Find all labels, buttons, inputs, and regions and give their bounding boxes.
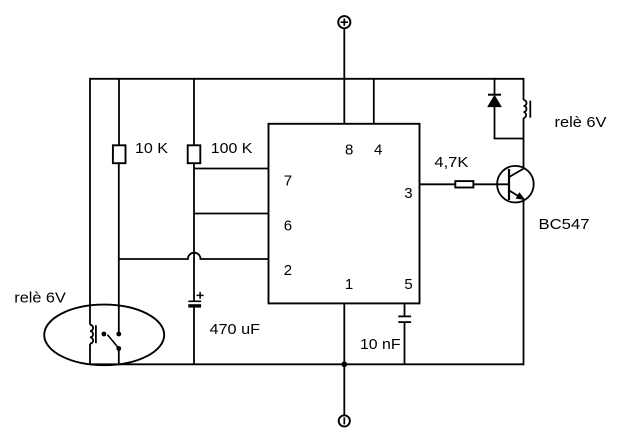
wire pin 1 to ground rail bbox=[343, 303, 345, 364]
wire left rail lower bbox=[89, 344, 91, 365]
diode D1 cathode bar bbox=[488, 94, 501, 96]
svg-text:relè 6V: relè 6V bbox=[14, 290, 65, 307]
wire top supply rail bbox=[90, 78, 524, 80]
svg-text:10 K: 10 K bbox=[135, 140, 168, 157]
svg-text:5: 5 bbox=[404, 276, 412, 293]
wire 10K branch upper bbox=[118, 79, 120, 146]
wire left rail upper bbox=[89, 78, 91, 325]
relay contact dot B bbox=[116, 332, 121, 337]
wire resistor R3 to transistor base bbox=[473, 183, 509, 185]
transistor Q1 base bar bbox=[508, 169, 510, 200]
wire pin 7 bbox=[194, 168, 269, 170]
wire right rail middle bbox=[523, 118, 525, 169]
svg-text:BC547: BC547 bbox=[539, 216, 590, 233]
resistor 4,7K bbox=[455, 181, 473, 187]
svg-text:100 K: 100 K bbox=[211, 140, 253, 157]
svg-text:7: 7 bbox=[284, 172, 292, 189]
diode D1 triangle bbox=[488, 96, 501, 107]
capacitor C2 10nF bottom plate bbox=[398, 321, 411, 323]
capacitor C2 10nF top plate bbox=[398, 315, 411, 317]
wire from plus terminal to pin 8 bbox=[343, 28, 345, 124]
plus supply terminal cross bbox=[341, 19, 348, 26]
IC 555 timer box U1 bbox=[269, 124, 420, 304]
wire right rail upper bbox=[523, 78, 525, 100]
capacitor C1 470uF bottom plate (thick) bbox=[188, 304, 201, 307]
transistor Q1 circle bbox=[497, 166, 534, 203]
wire capacitor C2 to ground rail bbox=[404, 322, 406, 364]
plus supply terminal circle bbox=[338, 16, 350, 28]
transistor Q1 collector diagonal bbox=[509, 168, 524, 177]
svg-text:4: 4 bbox=[374, 141, 382, 158]
svg-text:relè 6V: relè 6V bbox=[555, 114, 607, 131]
relay coil right core bar bbox=[529, 101, 531, 118]
capacitor C1 polarity plus sign bbox=[197, 292, 204, 299]
svg-text:8: 8 bbox=[345, 141, 353, 158]
wire 10K branch lower to relay contact bbox=[118, 163, 120, 334]
minus supply terminal circle bbox=[339, 415, 350, 426]
capacitor C1 470uF top plate bbox=[188, 300, 201, 302]
wire pin 5 to capacitor C2 bbox=[404, 303, 406, 316]
resistor 100 K bbox=[188, 145, 201, 163]
svg-text:4,7K: 4,7K bbox=[434, 154, 468, 171]
svg-text:1: 1 bbox=[345, 276, 353, 293]
resistor 10 K bbox=[113, 145, 126, 163]
wire pin 4 to top rail bbox=[373, 79, 375, 124]
minus supply terminal bar bbox=[343, 417, 345, 424]
transistor Q1 emitter diagonal bbox=[509, 190, 522, 198]
svg-text:10 nF: 10 nF bbox=[360, 336, 401, 353]
wire right rail lower (emitter to ground) bbox=[523, 199, 525, 365]
wire pin 2 with hop over vertical wire bbox=[119, 253, 269, 259]
wire capacitor C1 to ground rail bbox=[193, 308, 195, 365]
wire bottom ground rail bbox=[90, 363, 524, 365]
transistor Q1 emitter arrowhead bbox=[517, 193, 524, 199]
svg-text:2: 2 bbox=[284, 262, 292, 279]
wire diode branch lower bbox=[494, 107, 496, 139]
wire 100K branch upper bbox=[193, 79, 195, 146]
wire relay contact C to ground rail bbox=[118, 349, 120, 365]
relay contact dot A bbox=[102, 332, 107, 337]
relay coil left core bar bbox=[95, 325, 97, 343]
relay switch lever bbox=[108, 335, 119, 348]
svg-text:6: 6 bbox=[284, 217, 292, 234]
wire diode to right rail connector bbox=[494, 138, 524, 140]
svg-text:3: 3 bbox=[404, 185, 412, 202]
relay coil right bumps bbox=[524, 100, 527, 118]
relay coil left bumps bbox=[90, 325, 93, 344]
relay ellipse body bbox=[44, 305, 164, 366]
wire 100K branch lower to capacitor bbox=[193, 163, 195, 301]
junction dot at pin1/ground bbox=[341, 361, 347, 367]
svg-text:470 uF: 470 uF bbox=[210, 321, 261, 338]
wire ground rail to bottom terminal bbox=[343, 364, 345, 415]
relay contact dot C bbox=[116, 346, 121, 351]
wire pin 3 to resistor R3 bbox=[420, 183, 456, 185]
wire pin 6 bbox=[194, 213, 269, 215]
wire diode branch upper bbox=[494, 78, 496, 95]
